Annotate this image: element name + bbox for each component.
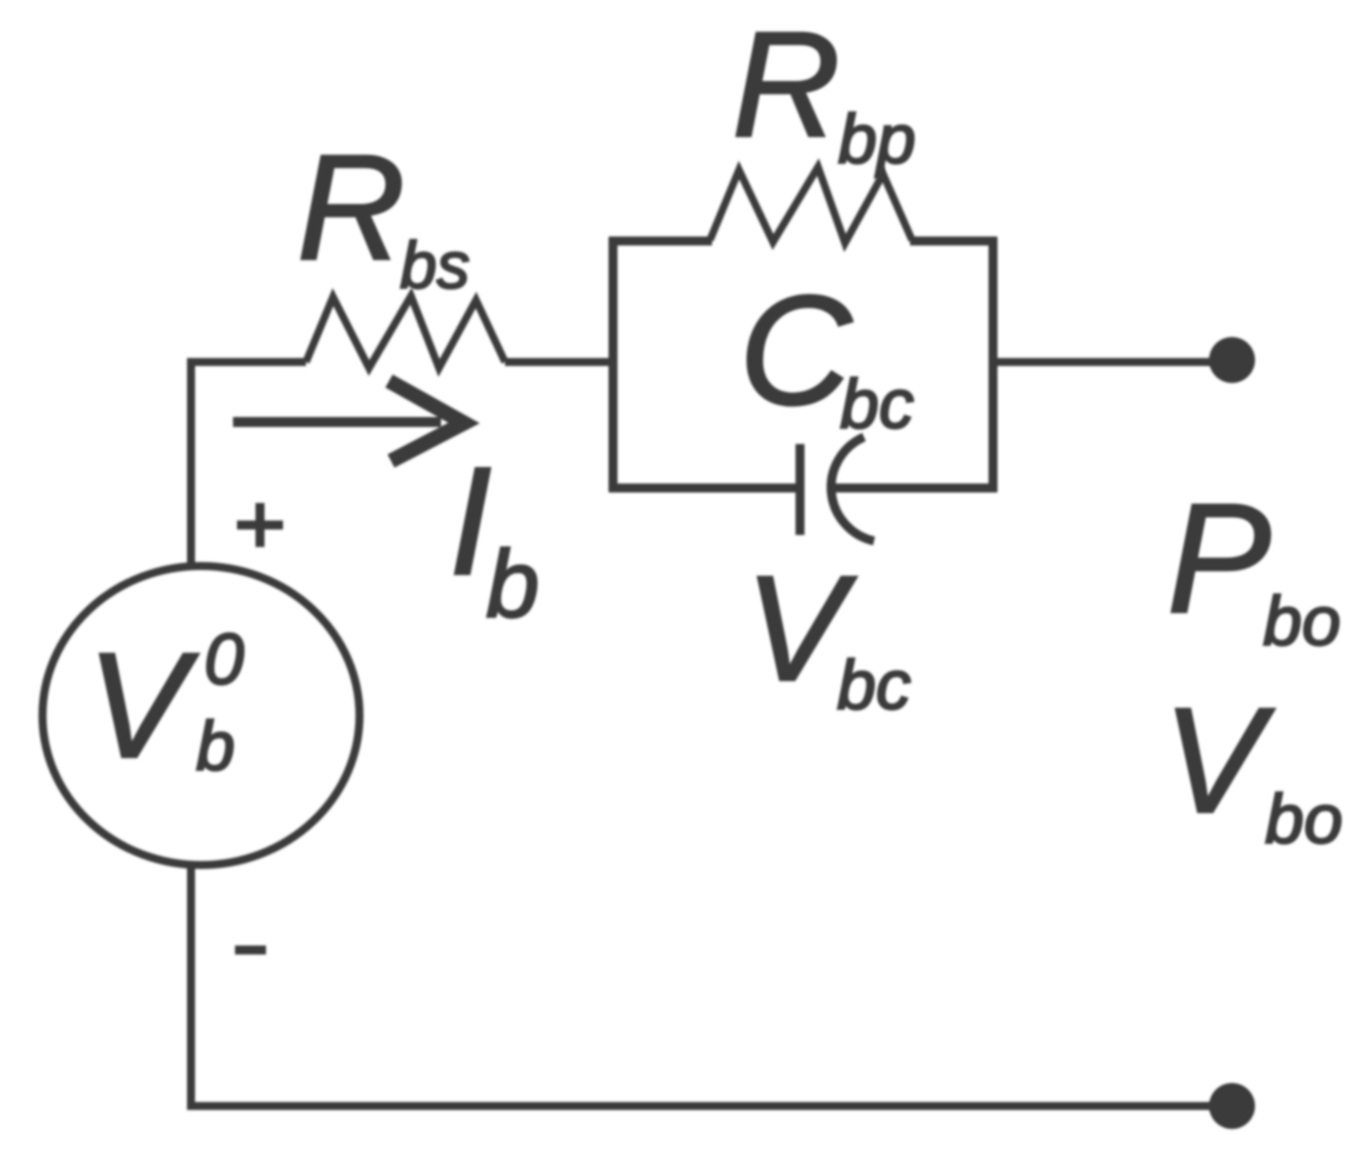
svg-text:R: R xyxy=(732,0,840,168)
box right edge xyxy=(989,237,998,492)
terminal dot top xyxy=(1209,337,1255,383)
bottom wire xyxy=(191,866,1222,1106)
svg-text:0: 0 xyxy=(204,620,244,700)
svg-text:V: V xyxy=(87,621,199,789)
resistor R_bp zigzag xyxy=(710,167,912,243)
current arrow I_b head xyxy=(389,381,464,461)
box left edge xyxy=(609,237,618,492)
minus sign xyxy=(235,946,266,955)
box bottom edge segments xyxy=(609,484,797,493)
voltage source circle xyxy=(43,566,360,865)
svg-text:bc: bc xyxy=(840,365,914,443)
svg-text:b: b xyxy=(196,707,235,785)
svg-text:C: C xyxy=(739,264,853,438)
svg-text:bp: bp xyxy=(838,100,916,178)
wire left vertical + top horizontal xyxy=(191,362,306,565)
plus sign xyxy=(237,521,283,530)
svg-text:R: R xyxy=(297,123,405,291)
capacitor C_bc left plate xyxy=(796,444,805,535)
svg-text:V: V xyxy=(1163,676,1275,844)
box top edge segments xyxy=(609,237,712,246)
current arrow I_b shaft xyxy=(233,417,441,427)
svg-text:bo: bo xyxy=(1263,582,1341,660)
svg-text:bo: bo xyxy=(1265,780,1343,858)
terminal dot bottom xyxy=(1209,1083,1255,1129)
output wire top xyxy=(993,358,1222,366)
resistor R_bs zigzag xyxy=(306,296,505,368)
svg-text:b: b xyxy=(486,531,539,638)
svg-text:bc: bc xyxy=(837,646,911,724)
svg-text:bs: bs xyxy=(400,228,470,302)
svg-text:P: P xyxy=(1167,472,1271,646)
wire R_bs to box xyxy=(505,358,617,366)
capacitor C_bc curved plate xyxy=(831,437,874,541)
